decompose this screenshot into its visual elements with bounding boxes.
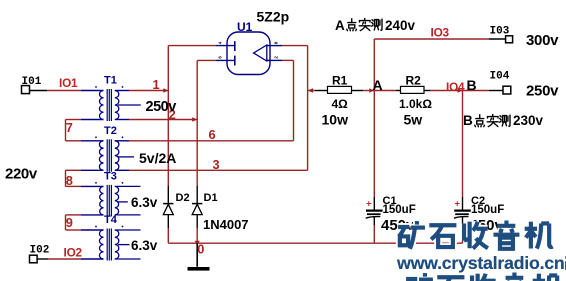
diode D1 bbox=[192, 192, 218, 215]
svg-text:5w: 5w bbox=[404, 112, 423, 128]
transformer T1 bbox=[95, 75, 141, 122]
transformer T4 bbox=[95, 214, 129, 261]
diode D2 bbox=[163, 192, 189, 215]
terminal I02 bbox=[30, 245, 50, 263]
svg-text:I03: I03 bbox=[490, 26, 510, 38]
label 1N4007 bbox=[203, 217, 249, 232]
wire vertical tube pin4 to D2 bbox=[167, 46, 169, 244]
svg-text:250v: 250v bbox=[146, 99, 177, 115]
resistor R1 bbox=[322, 74, 352, 128]
svg-text:R2: R2 bbox=[406, 74, 422, 88]
label B bbox=[467, 77, 477, 93]
svg-text:7: 7 bbox=[66, 120, 73, 135]
svg-text:150uF: 150uF bbox=[383, 204, 416, 216]
svg-text:I04: I04 bbox=[490, 71, 510, 83]
svg-text:IO3: IO3 bbox=[431, 26, 450, 40]
svg-text:+: + bbox=[455, 198, 461, 209]
svg-text:1: 1 bbox=[153, 77, 160, 92]
svg-text:4Ω: 4Ω bbox=[332, 97, 349, 111]
label A bbox=[373, 77, 383, 93]
label 300v bbox=[526, 32, 559, 49]
svg-text:300v: 300v bbox=[526, 32, 559, 49]
net label IO3 bbox=[431, 26, 450, 40]
svg-text:6.3v: 6.3v bbox=[131, 238, 158, 253]
wire IO2 to T4 primary bottom bbox=[37, 258, 104, 260]
wire node 3: T2 secondary bottom to tube pin8 bbox=[115, 46, 308, 171]
svg-text:T3: T3 bbox=[104, 170, 117, 182]
label 5Z2p bbox=[257, 9, 290, 25]
svg-text:R1: R1 bbox=[332, 74, 348, 88]
svg-text:T1: T1 bbox=[104, 75, 117, 87]
transformer T3 bbox=[95, 170, 128, 216]
resistor R2 bbox=[399, 74, 432, 128]
svg-text:D1: D1 bbox=[204, 192, 218, 204]
svg-text:8: 8 bbox=[66, 173, 73, 188]
pin number 3 bbox=[213, 157, 220, 172]
svg-text:B: B bbox=[463, 113, 473, 128]
svg-text:T2: T2 bbox=[104, 125, 117, 137]
capacitor C2 bbox=[454, 195, 504, 234]
label 6.3v T3 bbox=[131, 195, 158, 210]
pin number 8 bbox=[66, 173, 73, 188]
net label IO4 bbox=[446, 80, 465, 94]
svg-text:IO2: IO2 bbox=[64, 246, 83, 260]
wire IO4 down to C2 bbox=[462, 91, 464, 244]
pin number 9 bbox=[66, 215, 73, 230]
wire R2 to IO4 terminal bbox=[424, 88, 503, 93]
svg-text:1.0kΩ: 1.0kΩ bbox=[399, 97, 432, 111]
svg-text:D2: D2 bbox=[176, 192, 190, 204]
label 250v T1 bbox=[146, 99, 177, 115]
label 250v right bbox=[526, 83, 559, 100]
svg-text:220v: 220v bbox=[5, 166, 38, 183]
svg-text:1N4007: 1N4007 bbox=[203, 217, 249, 232]
pin number 6 bbox=[209, 127, 216, 142]
svg-text:6: 6 bbox=[209, 127, 216, 142]
annotation A measured 240v bbox=[335, 18, 416, 33]
annotation B measured 230v bbox=[463, 113, 544, 128]
wire primary series links with bus bbox=[66, 120, 104, 231]
net label IO1 bbox=[59, 76, 78, 90]
wire node 1: T1 secondary top to plate line bbox=[115, 88, 169, 93]
transformer T4 secondary leads bbox=[115, 230, 141, 259]
svg-text:IO1: IO1 bbox=[59, 76, 78, 90]
wire B+ rail to R1 bbox=[308, 88, 328, 93]
svg-text:A: A bbox=[373, 77, 383, 93]
svg-text:+: + bbox=[366, 198, 372, 209]
svg-text:3: 3 bbox=[213, 157, 220, 172]
pin number 2 bbox=[169, 107, 176, 122]
terminal I04 bbox=[490, 71, 511, 95]
label 6.3v T4 bbox=[131, 238, 158, 253]
wire R1 to node A bbox=[352, 88, 375, 93]
svg-text:IO4: IO4 bbox=[446, 80, 465, 94]
svg-text:10w: 10w bbox=[322, 112, 349, 128]
watermark crystalradio bbox=[396, 221, 566, 281]
pin number 0 bbox=[197, 242, 204, 257]
wire IO1 to T1 primary top bbox=[30, 90, 104, 92]
wire node 0 ground rail bbox=[168, 241, 462, 246]
svg-text:150uF: 150uF bbox=[471, 204, 504, 216]
svg-text:B: B bbox=[467, 77, 477, 93]
wire node 2: T1 secondary bottom to plate line bbox=[115, 117, 197, 122]
svg-text:230v: 230v bbox=[513, 113, 544, 128]
pin number 1 bbox=[153, 77, 160, 92]
svg-text:250v: 250v bbox=[526, 83, 559, 100]
wire vertical tube pin6 to D1 bbox=[196, 60, 198, 243]
wire node A up to IO3 bbox=[374, 39, 505, 91]
svg-text:240v: 240v bbox=[385, 18, 416, 33]
svg-text:6.3v: 6.3v bbox=[131, 195, 158, 210]
terminal I03 bbox=[490, 26, 513, 43]
wire tube left pins bbox=[168, 46, 235, 61]
pin number 7 bbox=[66, 120, 73, 135]
svg-text:5v/2A: 5v/2A bbox=[139, 150, 176, 166]
svg-text:5Z2p: 5Z2p bbox=[257, 9, 290, 25]
svg-text:I02: I02 bbox=[30, 245, 50, 257]
ground bbox=[188, 243, 210, 270]
svg-text:U1: U1 bbox=[237, 20, 253, 34]
svg-text:I01: I01 bbox=[22, 76, 42, 88]
svg-text:A: A bbox=[335, 18, 345, 33]
wire node A down to C1 bbox=[373, 91, 375, 244]
net label IO2 bbox=[64, 246, 83, 260]
label U1 bbox=[237, 20, 253, 34]
svg-text:www.crystalradio.cn: www.crystalradio.cn bbox=[396, 253, 565, 273]
terminal I01 bbox=[22, 76, 42, 94]
svg-text:T4: T4 bbox=[104, 214, 118, 226]
capacitor C1 bbox=[366, 195, 416, 234]
svg-text:0: 0 bbox=[197, 242, 204, 257]
wire node 6: T2 secondary top to tube pin2 bbox=[115, 60, 294, 140]
label 220v bbox=[5, 166, 38, 183]
svg-text:9: 9 bbox=[66, 215, 73, 230]
transformer T2 bbox=[95, 125, 134, 172]
transformer T3 secondary leads bbox=[115, 186, 141, 215]
tube U1 5Z2p bbox=[218, 32, 279, 75]
label 5v/2A bbox=[139, 150, 176, 166]
wire node A to R2 bbox=[374, 90, 400, 92]
